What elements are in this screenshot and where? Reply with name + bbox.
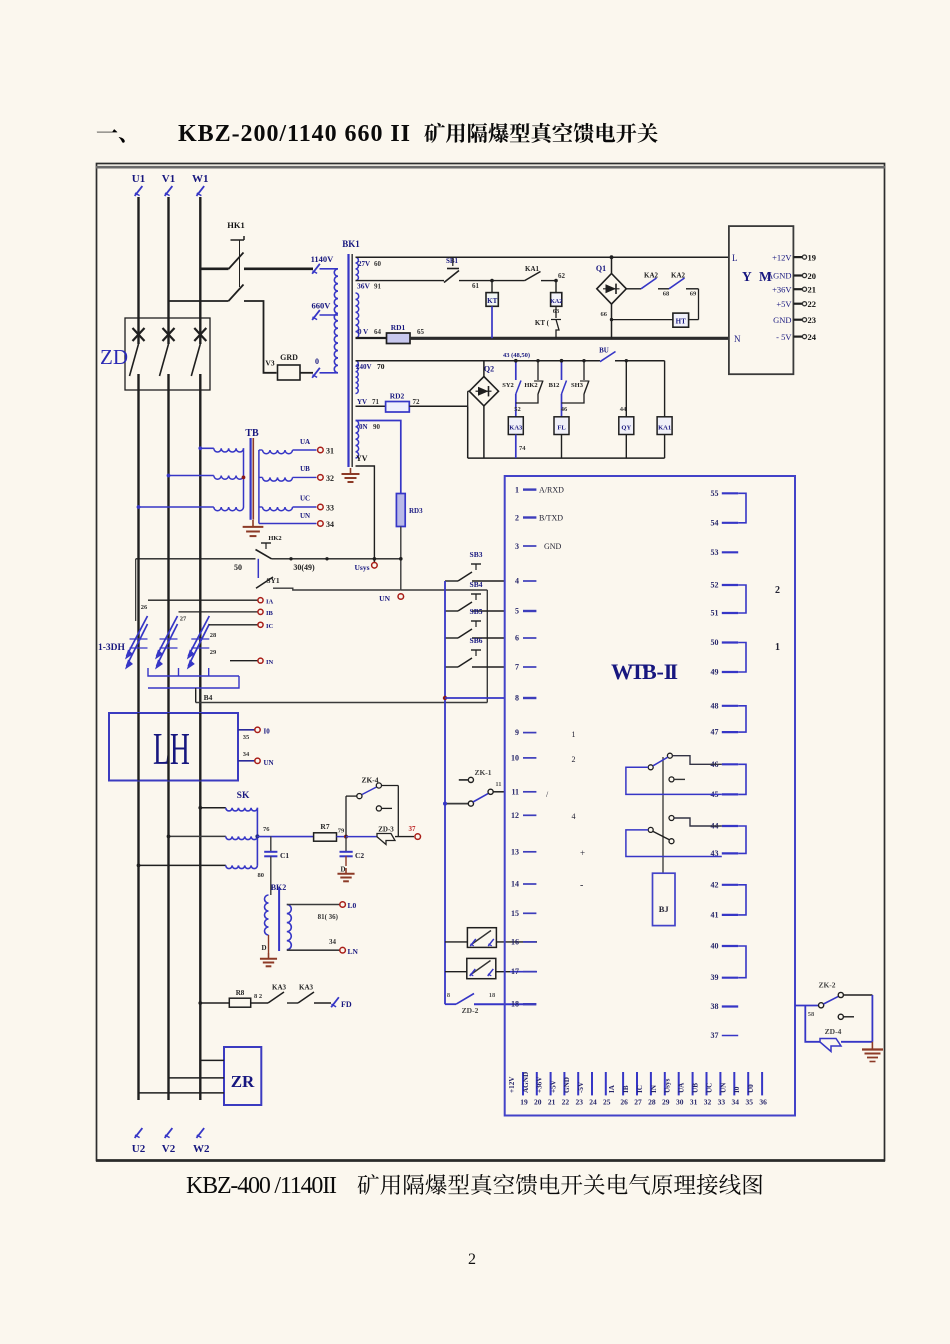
svg-text:1: 1: [775, 642, 780, 653]
svg-text:79: 79: [338, 828, 345, 835]
WTB pin 30: [678, 1072, 680, 1095]
svg-text:IA: IA: [608, 1084, 616, 1093]
terminal FD: [331, 997, 339, 1007]
svg-text:47: 47: [711, 728, 719, 737]
svg-text:KT: KT: [487, 297, 497, 305]
svg-text:70: 70: [377, 362, 385, 371]
svg-text:0 V: 0 V: [358, 328, 368, 336]
svg-text:ZD: ZD: [100, 345, 128, 369]
svg-text:20: 20: [534, 1098, 542, 1107]
block LH: [109, 713, 238, 781]
svg-text:ZD-4: ZD-4: [825, 1027, 842, 1036]
transformer BK1 ground: [350, 468, 352, 474]
svg-text:34: 34: [732, 1098, 740, 1107]
relay HT: [673, 313, 689, 327]
svg-text:KA1: KA1: [658, 425, 671, 432]
jumper bracket 44-43: [738, 826, 746, 853]
svg-text:27V: 27V: [358, 260, 370, 268]
relay BJ: [653, 873, 676, 925]
current transformer DH1: [127, 624, 148, 666]
svg-text:IN: IN: [650, 1084, 658, 1093]
svg-text:14: 14: [511, 880, 519, 889]
WTB pin 28: [650, 1072, 652, 1095]
svg-text:240V: 240V: [356, 363, 372, 371]
svg-text:ZD-3: ZD-3: [378, 826, 394, 834]
svg-text:22: 22: [562, 1098, 570, 1107]
svg-text:UB: UB: [300, 465, 310, 473]
svg-text:26: 26: [620, 1098, 628, 1107]
svg-text:SB4: SB4: [470, 580, 483, 589]
svg-text:11: 11: [495, 781, 501, 788]
terminal U2: [135, 1128, 143, 1138]
wire 240V rail: [356, 360, 601, 362]
svg-text:GRD: GRD: [280, 353, 298, 362]
CT interconnect wiring: [148, 668, 239, 676]
svg-text:HT: HT: [676, 318, 686, 326]
svg-text:27: 27: [634, 1098, 642, 1107]
wire W1 vertical: [199, 197, 201, 344]
svg-text:34: 34: [329, 938, 337, 946]
relay QY: [625, 361, 627, 417]
svg-text:LN: LN: [348, 947, 359, 956]
svg-text:29: 29: [210, 649, 217, 656]
WTB pin 34: [733, 1072, 735, 1095]
WTB pin 35: [747, 1072, 749, 1095]
svg-text:28: 28: [648, 1098, 656, 1107]
relay KT: [491, 281, 493, 293]
svg-text:0: 0: [315, 357, 319, 366]
svg-text:Q2: Q2: [484, 365, 494, 374]
svg-text:24: 24: [808, 332, 817, 342]
svg-text:35: 35: [243, 734, 250, 741]
svg-text:SB6: SB6: [470, 636, 483, 645]
wire YV bottom to Usys: [356, 466, 375, 562]
svg-text:54: 54: [711, 518, 719, 527]
svg-text:10: 10: [511, 753, 519, 762]
jumper bracket 55-54: [738, 493, 746, 523]
svg-text:40: 40: [711, 942, 719, 951]
relay KA1: [664, 361, 666, 417]
BK2 ground: [268, 953, 270, 959]
wire V1 to HK1 pole2 to GRD: [169, 300, 229, 302]
svg-text:80: 80: [258, 872, 265, 879]
WTB pin 26: [622, 1072, 624, 1095]
jumper bracket 50-49: [738, 643, 746, 673]
CT output IB: [179, 611, 258, 613]
WTB pin 27: [636, 1072, 638, 1095]
svg-text:30(49): 30(49): [293, 563, 315, 572]
TB secondary UA: [263, 450, 293, 454]
svg-text:27: 27: [180, 616, 187, 623]
CT output IN: [230, 660, 258, 662]
svg-text:+: +: [580, 848, 585, 858]
svg-text:UN: UN: [719, 1082, 727, 1093]
CT output IA: [148, 599, 258, 601]
jumper bracket 48-47: [738, 706, 746, 732]
wire measuring line 50/30(49): [136, 558, 256, 560]
svg-text:37: 37: [711, 1031, 719, 1040]
svg-text:21: 21: [808, 285, 817, 295]
svg-text:72: 72: [413, 398, 421, 406]
svg-text:FL: FL: [557, 425, 566, 432]
svg-text:3: 3: [515, 542, 519, 551]
bus wire to pin8: [444, 581, 446, 1004]
svg-text:34: 34: [243, 751, 250, 758]
switch ZK-2: [795, 1005, 819, 1007]
svg-text:32: 32: [326, 474, 334, 483]
svg-text:42: 42: [711, 880, 719, 889]
svg-text:+5V: +5V: [549, 1079, 557, 1093]
svg-text:17: 17: [511, 967, 519, 976]
svg-text:HK2: HK2: [524, 382, 537, 389]
svg-text:B12: B12: [549, 382, 560, 389]
svg-text:RD2: RD2: [390, 392, 405, 401]
isolator ZD: [125, 318, 210, 390]
svg-text:68: 68: [663, 291, 670, 298]
svg-text:N: N: [734, 334, 741, 344]
svg-text:38: 38: [711, 1002, 719, 1011]
wire V1 vertical: [167, 197, 169, 344]
current transformer DH2: [157, 624, 178, 666]
BK2 secondary: [287, 905, 292, 950]
svg-text:90: 90: [373, 423, 381, 431]
svg-text:65: 65: [417, 328, 425, 336]
svg-text:62: 62: [558, 272, 566, 280]
jumper bracket 52-51: [738, 585, 746, 613]
svg-text:23: 23: [575, 1098, 583, 1107]
svg-text:UB: UB: [692, 1083, 700, 1093]
svg-text:2: 2: [515, 514, 519, 523]
svg-text:B/TXD: B/TXD: [539, 514, 563, 523]
svg-text:ZD-2: ZD-2: [462, 1006, 479, 1015]
svg-text:LH: LH: [153, 724, 190, 775]
svg-text:SB5: SB5: [470, 607, 483, 616]
svg-text:81( 36): 81( 36): [318, 913, 339, 921]
relay KA2: [555, 281, 557, 293]
CT output IC: [209, 624, 258, 626]
svg-text:SH3: SH3: [571, 382, 584, 389]
svg-text:52: 52: [711, 581, 719, 590]
controller WTB-II box: [505, 476, 795, 1116]
svg-text:50: 50: [234, 563, 242, 572]
WTB internal changeover contact lower: [669, 816, 674, 821]
svg-text:YV: YV: [357, 398, 367, 406]
svg-text:Q1: Q1: [596, 264, 606, 273]
svg-text:2: 2: [775, 585, 780, 596]
svg-text:WTB - II: WTB - II: [611, 659, 678, 684]
wire SY1 to UN: [273, 588, 401, 590]
wire CT return B4: [196, 702, 488, 704]
svg-text:IB: IB: [622, 1085, 630, 1093]
switch SY1: [257, 559, 259, 578]
svg-text:ZR: ZR: [231, 1072, 255, 1091]
svg-text:RD1: RD1: [391, 323, 406, 332]
svg-text:R7: R7: [320, 822, 329, 831]
fuse RD1: [356, 337, 387, 339]
wire 72 to Q2 and down: [467, 406, 469, 458]
svg-text:15: 15: [511, 909, 519, 918]
TB secondary UB: [263, 477, 293, 481]
WTB pin 22: [563, 1072, 565, 1095]
TB primary wires: [200, 447, 214, 449]
svg-text:KA3: KA3: [299, 984, 314, 992]
svg-text:D: D: [340, 866, 345, 874]
svg-text:4: 4: [515, 577, 519, 586]
svg-text:UC: UC: [300, 495, 310, 503]
svg-text:RD3: RD3: [409, 507, 423, 515]
svg-text:L: L: [732, 253, 738, 263]
svg-text:UA: UA: [678, 1082, 686, 1093]
TB secondary bus and UN: [258, 450, 260, 524]
WTB pin 29: [664, 1072, 666, 1095]
WTB pin 21: [550, 1072, 552, 1095]
svg-text:U2: U2: [132, 1143, 146, 1155]
svg-text:32: 32: [704, 1098, 712, 1107]
svg-text:37: 37: [409, 825, 417, 833]
block ZR: [224, 1047, 261, 1105]
svg-text:51: 51: [711, 609, 719, 618]
interlock contact box pin16: [467, 928, 496, 948]
wire 36V tap: [356, 280, 445, 282]
svg-text:19: 19: [808, 253, 817, 263]
svg-text:4: 4: [572, 812, 576, 821]
ZD-4 ground: [871, 1042, 873, 1049]
svg-text:AGND: AGND: [522, 1072, 530, 1093]
svg-text:SY2: SY2: [502, 382, 514, 389]
svg-text:KBZ-400 /1140II: KBZ-400 /1140II: [186, 1173, 337, 1199]
svg-text:61: 61: [472, 282, 480, 290]
svg-text:- 5V: - 5V: [776, 332, 792, 342]
TB primary coils: [214, 448, 244, 452]
jumper bracket 42-41: [738, 885, 746, 915]
svg-text:12: 12: [511, 811, 519, 820]
BK1 secondary winding 240V: [356, 361, 359, 394]
interlock contact box pin17: [467, 958, 496, 978]
svg-text:23: 23: [808, 315, 817, 325]
svg-text:71: 71: [372, 398, 380, 406]
svg-text:41: 41: [711, 910, 719, 919]
svg-text:KBZ-200/1140 660 II: KBZ-200/1140 660 II: [178, 121, 410, 147]
svg-text:58: 58: [808, 1011, 815, 1018]
svg-text:60: 60: [374, 260, 382, 268]
svg-text:BK1: BK1: [342, 239, 360, 249]
BK1 secondary winding 27V: [356, 257, 359, 280]
svg-text:IC: IC: [266, 623, 274, 630]
svg-text:28: 28: [210, 632, 217, 639]
svg-text:31: 31: [690, 1098, 698, 1107]
svg-text:KA1: KA1: [525, 265, 540, 273]
svg-text:46: 46: [561, 406, 568, 413]
svg-text:34: 34: [326, 520, 334, 529]
resistor R8: [200, 1002, 229, 1004]
svg-text:1140V: 1140V: [311, 254, 335, 264]
svg-text:43 (48,50): 43 (48,50): [503, 352, 530, 359]
current transformer DH3: [188, 624, 209, 666]
wire loop to CT zone: [135, 559, 137, 621]
resistor R7: [314, 833, 337, 841]
svg-text:UN: UN: [264, 759, 274, 767]
switch ZK-4: [345, 796, 347, 837]
svg-text:18: 18: [511, 1000, 519, 1009]
svg-text:YV: YV: [356, 454, 368, 463]
TB primary bus: [243, 448, 245, 507]
capacitor C1: [270, 836, 272, 851]
terminal V2: [165, 1128, 173, 1138]
svg-text:8: 8: [515, 694, 519, 703]
svg-text:A/RXD: A/RXD: [539, 486, 564, 495]
svg-text:+12V: +12V: [772, 252, 792, 262]
svg-text:64: 64: [374, 328, 382, 336]
WTB pin 33: [719, 1072, 721, 1095]
svg-text:31: 31: [326, 447, 334, 456]
svg-text:U1: U1: [132, 173, 145, 185]
svg-text:29: 29: [662, 1098, 670, 1107]
svg-text:V2: V2: [162, 1143, 176, 1155]
svg-text:I0: I0: [733, 1086, 741, 1093]
svg-text:+5V: +5V: [776, 299, 792, 309]
svg-text:50: 50: [711, 638, 719, 647]
TB ground: [252, 520, 254, 527]
wire 0V bus 65 to YM N: [410, 337, 729, 340]
transformer BK1 primary winding: [334, 269, 338, 373]
LH pin 35 I0: [238, 729, 255, 731]
wire bottom rail 74: [468, 457, 665, 459]
fuse RD2: [356, 405, 386, 407]
svg-text:660V: 660V: [312, 301, 332, 311]
svg-text:UC: UC: [705, 1083, 713, 1093]
svg-text:-5V: -5V: [577, 1081, 585, 1093]
svg-text:13: 13: [511, 847, 519, 856]
svg-text:74: 74: [519, 445, 526, 452]
title text: [97, 129, 125, 143]
svg-text:KA2: KA2: [550, 299, 562, 305]
svg-text:+36V: +36V: [536, 1076, 544, 1093]
svg-text:L0: L0: [348, 901, 357, 910]
svg-text:IB: IB: [266, 610, 274, 617]
svg-text:B4: B4: [204, 693, 213, 702]
svg-text:ZK-4: ZK-4: [361, 776, 378, 785]
svg-text:UN: UN: [300, 512, 310, 520]
wire U1 vertical: [137, 197, 139, 344]
svg-text:AGND: AGND: [767, 271, 792, 281]
LH pin 34 UN: [238, 760, 255, 762]
svg-text:-: -: [580, 880, 583, 891]
WTB pin 20: [536, 1072, 538, 1095]
jumper bracket 46-45: [738, 764, 746, 794]
svg-text:66: 66: [601, 311, 608, 318]
svg-text:R8: R8: [236, 989, 245, 997]
svg-text:D: D: [261, 944, 266, 952]
svg-text:2: 2: [468, 1251, 476, 1268]
svg-text:Usys: Usys: [354, 563, 369, 572]
svg-text:21: 21: [548, 1098, 556, 1107]
jumper bracket 40-39: [738, 946, 746, 978]
svg-text:55: 55: [711, 489, 719, 498]
svg-text:QY: QY: [621, 425, 631, 432]
svg-text:IN: IN: [266, 659, 274, 666]
svg-text:IA: IA: [266, 599, 274, 606]
svg-text:49: 49: [711, 668, 719, 677]
wire Q2 bottom: [483, 406, 485, 458]
svg-text:5: 5: [515, 607, 519, 616]
svg-text:9: 9: [515, 728, 519, 737]
svg-text:UN: UN: [379, 594, 390, 603]
svg-text:TB: TB: [245, 428, 259, 439]
border frame: [97, 164, 885, 1161]
svg-text:91: 91: [374, 283, 382, 291]
svg-text:25: 25: [603, 1098, 611, 1107]
svg-text:+12V: +12V: [508, 1076, 516, 1093]
svg-text:16: 16: [511, 937, 519, 946]
svg-text:ZK-1: ZK-1: [474, 768, 491, 777]
power supply unit YM: [729, 226, 794, 374]
terminal W2: [196, 1128, 204, 1138]
resistor RD3: [400, 494, 402, 527]
BK1 secondary winding 0V: [356, 293, 359, 338]
svg-text:30: 30: [676, 1098, 684, 1107]
svg-text:W2: W2: [193, 1143, 210, 1155]
wire 0N tap to RD3: [356, 421, 401, 494]
svg-text:Usys: Usys: [664, 1078, 672, 1093]
TB core: [250, 438, 252, 520]
WTB pin 31: [692, 1072, 694, 1095]
wire 61: [459, 280, 525, 282]
svg-text:18: 18: [489, 992, 496, 999]
svg-text:1-3DH: 1-3DH: [98, 643, 126, 653]
svg-text:52: 52: [514, 406, 521, 413]
svg-text:8 2: 8 2: [254, 993, 262, 1000]
svg-text:GND: GND: [773, 315, 791, 325]
WTB pin 19: [522, 1072, 524, 1095]
svg-text:HK2: HK2: [268, 535, 281, 542]
svg-text:20: 20: [808, 271, 817, 281]
svg-text:1: 1: [515, 486, 519, 495]
svg-text:33: 33: [326, 504, 334, 513]
svg-text:I0: I0: [264, 728, 271, 736]
svg-text:IC: IC: [636, 1085, 644, 1093]
svg-text:C1: C1: [280, 851, 289, 860]
wire 27V rail to YM L: [356, 256, 729, 258]
svg-text:U0: U0: [747, 1084, 755, 1093]
wire 66 to HT: [612, 319, 673, 321]
WTB pin 32: [706, 1072, 708, 1095]
svg-text:ZK-2: ZK-2: [818, 981, 835, 990]
svg-text:36: 36: [759, 1098, 767, 1107]
svg-text:V3: V3: [265, 359, 274, 368]
svg-text:UA: UA: [300, 438, 310, 446]
transformer BK1 core: [347, 254, 349, 467]
svg-text:FD: FD: [341, 1000, 352, 1009]
TB secondary UC: [263, 507, 293, 511]
svg-text:1: 1: [572, 730, 576, 739]
svg-text:2: 2: [572, 755, 576, 764]
svg-text:76: 76: [263, 826, 270, 833]
svg-text:BU: BU: [599, 347, 609, 355]
SK output bus: [256, 808, 258, 866]
svg-text:KA3: KA3: [509, 425, 523, 432]
svg-text:69: 69: [690, 291, 697, 298]
WTB pin 24: [591, 1072, 593, 1095]
wire W1 to HK1 pole1 to 1140V: [200, 267, 228, 270]
BK1 secondary winding 0N: [356, 421, 359, 459]
svg-text:26: 26: [141, 604, 148, 611]
svg-text:HK1: HK1: [227, 220, 244, 230]
svg-text:KT (: KT (: [535, 319, 550, 327]
svg-text:53: 53: [711, 548, 719, 557]
svg-text:11: 11: [511, 787, 519, 796]
capacitor C2: [345, 837, 347, 852]
wire UN to SB bus: [401, 589, 488, 591]
